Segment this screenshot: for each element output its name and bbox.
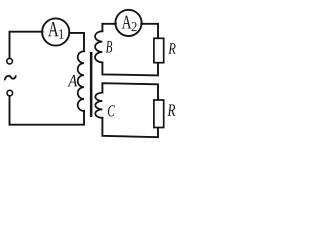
label A2 subscript 2 (132, 22, 137, 31)
wire: left loop top horizontal (10, 32, 43, 58)
label resistor R top (168, 43, 175, 54)
label A1 letter A (48, 22, 59, 36)
wire: coil B top to A2 (102, 24, 115, 31)
label A2 letter A (122, 16, 132, 29)
ammeter A2 (115, 10, 141, 36)
coil C (secondary winding, bottom) (95, 93, 102, 118)
terminal (top) of AC source (7, 58, 13, 64)
transformer core (90, 52, 93, 117)
wire: coil A bottom to source (10, 97, 85, 125)
wire: R2 bottom to coil C bottom (102, 118, 158, 137)
wire: coil C top to resistor R2 (102, 83, 158, 99)
coil B (secondary winding, top) (95, 31, 102, 62)
resistor R1 (154, 38, 164, 62)
label coil A (67, 75, 77, 86)
AC source tilde (5, 76, 16, 80)
label resistor R bottom (168, 104, 176, 115)
resistor R2 (154, 100, 164, 128)
ammeter A1 (42, 18, 69, 45)
label coil B (106, 41, 112, 52)
label coil C (108, 105, 115, 116)
wire: R1 bottom to coil B bottom (102, 62, 158, 75)
label A1 subscript 1 (59, 29, 63, 38)
coil A (primary winding) (78, 51, 84, 111)
wire: A1 to coil A top (70, 33, 85, 51)
wire: A2 to resistor R1 (141, 24, 158, 38)
terminal (bottom) of AC source (7, 90, 13, 96)
